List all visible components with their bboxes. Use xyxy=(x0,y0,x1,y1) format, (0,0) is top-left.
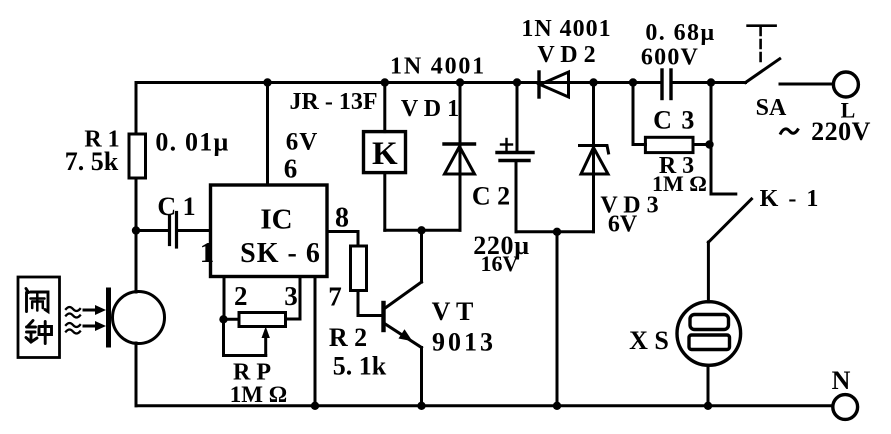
wire left vertical rail to R1 xyxy=(135,83,138,135)
wire collector node horizontal xyxy=(385,229,460,232)
svg-text:C 2: C 2 xyxy=(472,182,510,211)
svg-text:K - 1: K - 1 xyxy=(760,186,821,212)
character nao of alarm clock xyxy=(26,289,48,312)
wire top rail to relay K xyxy=(383,83,386,132)
resistor R3 1M xyxy=(633,83,711,153)
potentiometer RP xyxy=(239,313,286,327)
wire junction to C1 xyxy=(136,229,170,232)
diode VD1 1N4001 xyxy=(444,83,475,231)
wire C1 to IC pin1 xyxy=(177,229,211,232)
node R3 right junction xyxy=(705,140,713,148)
character zhong of alarm clock xyxy=(26,321,52,344)
capacitor C1 xyxy=(170,213,177,248)
node emitter ground junction xyxy=(417,402,425,410)
svg-text:JR - 13F: JR - 13F xyxy=(290,89,378,115)
node SA rail junction xyxy=(707,78,715,86)
svg-text:0. 01µ: 0. 01µ xyxy=(155,128,229,157)
wire microphone to bottom rail xyxy=(135,343,138,406)
capacitor C2 220u 16V xyxy=(497,83,533,232)
svg-text:9013: 9013 xyxy=(432,328,496,357)
terminal N xyxy=(833,395,858,420)
svg-text:1N 4001: 1N 4001 xyxy=(521,16,611,42)
svg-text:8: 8 xyxy=(335,203,349,234)
svg-text:220V: 220V xyxy=(811,117,871,146)
IC U1 SK-6 box xyxy=(211,185,328,277)
relay coil K xyxy=(364,132,406,173)
relay contact K-1 xyxy=(708,194,751,302)
wire top rail right segment xyxy=(671,81,746,84)
node pin6 rail junction xyxy=(263,78,271,86)
svg-text:X S: X S xyxy=(629,326,669,355)
svg-text:7: 7 xyxy=(328,282,342,312)
zener diode VD3 6V xyxy=(580,83,609,232)
svg-text:16V: 16V xyxy=(481,251,519,276)
svg-text:R 2: R 2 xyxy=(329,323,367,352)
svg-text:5. 1k: 5. 1k xyxy=(333,352,387,381)
svg-text:V D 1: V D 1 xyxy=(401,96,459,122)
microphone BM xyxy=(113,292,165,344)
socket XS xyxy=(677,302,741,366)
resistor R1 xyxy=(129,134,146,178)
diode VD2 1N4001 xyxy=(539,72,569,97)
sound arrow 1 xyxy=(84,305,106,315)
wire ground link to bottom rail xyxy=(556,232,559,406)
resistor R2 xyxy=(351,246,367,291)
node C1 junction xyxy=(132,226,140,234)
wire RP wiper link xyxy=(224,319,266,355)
sound arrow 2 xyxy=(84,321,106,331)
node K rail junction xyxy=(381,78,389,86)
terminal L xyxy=(833,72,858,97)
capacitor C3 0.68u 600V xyxy=(662,70,671,99)
svg-text:7. 5k: 7. 5k xyxy=(65,147,119,176)
node R3 left rail junction xyxy=(629,78,637,86)
wire R1 to microphone xyxy=(135,178,138,292)
svg-text:SK - 6: SK - 6 xyxy=(240,238,321,269)
svg-text:6V: 6V xyxy=(286,129,319,156)
wire top rail left segment xyxy=(136,81,662,84)
svg-text:K: K xyxy=(372,136,398,172)
node RP left junction xyxy=(219,315,227,323)
switch SA xyxy=(746,26,780,83)
svg-text:IC: IC xyxy=(260,204,292,236)
svg-text:600V: 600V xyxy=(641,45,699,71)
wire IC pin6 to top rail xyxy=(266,83,269,186)
svg-text:3: 3 xyxy=(284,281,298,311)
node C2 rail junction xyxy=(513,78,521,86)
svg-text:6: 6 xyxy=(284,154,298,184)
svg-text:SA: SA xyxy=(756,95,787,121)
wire R2 to VT base xyxy=(358,291,382,316)
svg-text:1N 4001: 1N 4001 xyxy=(390,54,486,80)
svg-text:V D 2: V D 2 xyxy=(537,42,595,68)
svg-text:6V: 6V xyxy=(608,212,638,238)
wire VT collector up xyxy=(420,230,423,282)
node collector junction xyxy=(417,226,425,234)
node ground link junction xyxy=(553,228,561,236)
svg-text:1M Ω: 1M Ω xyxy=(652,171,707,196)
wire bottom rail xyxy=(136,404,833,407)
alarm clock box xyxy=(18,277,60,358)
svg-text:C 1: C 1 xyxy=(157,192,195,221)
node pin7 ground junction xyxy=(311,402,319,410)
wire RP left lead xyxy=(224,318,240,321)
transistor VT 9013 xyxy=(384,282,422,348)
svg-text:2: 2 xyxy=(234,281,248,311)
node VD3 rail junction xyxy=(589,78,597,86)
wire rail to K-1 xyxy=(710,83,713,195)
wire IC pin8 to R2 xyxy=(327,232,358,247)
wire K bottom to collector node xyxy=(383,173,386,231)
wiper arrow RP xyxy=(262,327,270,356)
wire IC pin3 down to RP xyxy=(286,277,301,320)
svg-text:C 3: C 3 xyxy=(653,106,696,135)
wire SA fixed contact to L terminal xyxy=(780,83,833,86)
sound wave marks xyxy=(66,307,80,334)
wire VT emitter down xyxy=(420,348,423,406)
wire ground link C2/VD3 xyxy=(516,230,594,233)
node XS bottom junction xyxy=(704,402,712,410)
wire IC pin2 down xyxy=(223,277,226,320)
node VD1 rail junction xyxy=(456,78,464,86)
wire XS to bottom rail xyxy=(707,365,710,406)
svg-text:1M Ω: 1M Ω xyxy=(230,382,287,407)
label 220V xyxy=(780,129,799,135)
svg-text:N: N xyxy=(832,366,851,395)
svg-text:0. 68µ: 0. 68µ xyxy=(645,20,715,46)
svg-text:1: 1 xyxy=(200,237,215,269)
node bottom rail junction xyxy=(553,402,561,410)
wire IC pin7 ground xyxy=(314,277,317,406)
svg-text:V T: V T xyxy=(432,297,474,326)
